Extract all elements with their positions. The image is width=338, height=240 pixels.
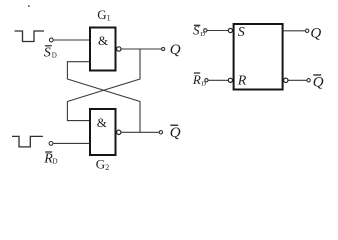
label Q-bar (left circuit) — [170, 125, 181, 141]
svg-text:D: D — [53, 158, 58, 166]
label S_D (left circuit) — [44, 45, 57, 60]
svg-text:S: S — [44, 45, 51, 60]
wire S_D terminal to S inversion bubble — [207, 30, 228, 32]
input pulse waveform for R_D — [12, 136, 43, 147]
inversion bubble at R input — [228, 78, 232, 82]
svg-text:Q: Q — [310, 26, 321, 42]
label R_D (symbol) — [192, 72, 206, 88]
output bubble G2 — [117, 130, 121, 134]
svg-text:R: R — [192, 72, 201, 87]
terminal S_D (symbol) — [204, 29, 207, 32]
svg-text:G: G — [97, 7, 106, 22]
terminal Q-bar (left circuit) — [159, 131, 162, 134]
wire feedback Q-bar to G1 input 2 (cross-coupling) — [67, 62, 140, 133]
wire Q-bar output (symbol) — [288, 79, 307, 81]
terminal Q-bar (symbol) — [307, 79, 310, 82]
wire feedback Q to G2 input 1 (cross-coupling) — [67, 49, 140, 121]
output bubble G1 — [117, 47, 121, 51]
wire G2 output to Q-bar terminal — [121, 131, 159, 133]
svg-text:D: D — [52, 52, 57, 60]
SR latch symbol box U1 — [234, 24, 283, 90]
terminal Q (symbol) — [305, 29, 308, 32]
svg-text:D: D — [200, 31, 205, 38]
terminal R_D (left circuit) — [49, 142, 53, 146]
svg-text:Q: Q — [170, 42, 181, 58]
terminal S_D (left circuit) — [49, 38, 53, 42]
svg-text:&: & — [97, 115, 107, 130]
terminal R_D (symbol) — [205, 79, 208, 82]
svg-text:S: S — [238, 25, 245, 40]
svg-text:G: G — [96, 157, 105, 172]
terminal Q (left circuit) — [162, 47, 165, 50]
wire R_D terminal to G2 input 2 — [53, 142, 90, 144]
label G1 — [97, 7, 110, 23]
svg-text:&: & — [98, 33, 108, 48]
wire S_D terminal to G1 input 1 — [53, 39, 89, 41]
NAND gate G1 — [90, 28, 116, 71]
wire G1 output to Q terminal — [121, 48, 162, 50]
svg-text:D: D — [201, 81, 206, 88]
label G2 — [96, 157, 109, 173]
input pulse waveform for S_D — [15, 31, 45, 42]
inversion bubble at Q-bar output — [284, 78, 288, 82]
svg-text:1: 1 — [107, 14, 111, 23]
svg-text:2: 2 — [105, 163, 109, 172]
svg-text:Q: Q — [313, 75, 324, 91]
inversion bubble at S input — [228, 28, 232, 32]
label R_D (left circuit) — [43, 151, 57, 166]
svg-text:Q: Q — [170, 125, 181, 141]
label Q-bar (symbol) — [313, 75, 324, 91]
svg-text:R: R — [237, 73, 247, 88]
wire R_D terminal to R inversion bubble — [208, 79, 228, 81]
label S_D (symbol) — [193, 23, 205, 38]
NAND gate G2 — [90, 109, 116, 155]
wire Q output (symbol) — [284, 30, 306, 32]
